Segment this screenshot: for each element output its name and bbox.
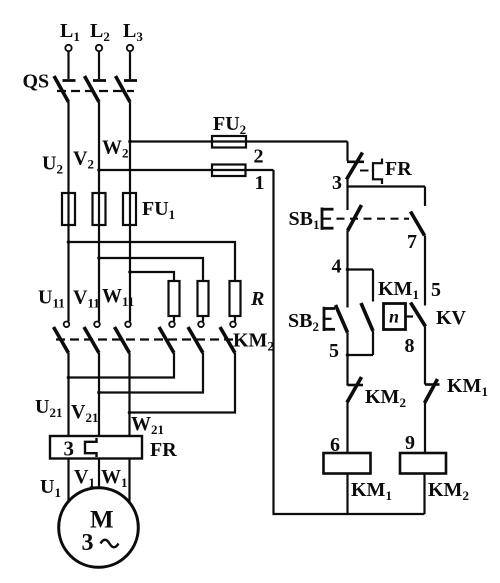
fuse FU1 pole 1 [62,193,75,225]
label n [389,307,399,327]
svg-text:QS: QS [23,71,50,93]
svg-text:3: 3 [82,530,94,556]
label FR (contact) [385,158,412,180]
KM2 break contact (left rung) [347,355,363,453]
node label 4 [332,256,342,278]
speed relay KV n-box [384,304,414,330]
SB2 make contact [336,270,348,356]
wire V phase QS to FU1 [98,102,100,193]
label KM1 (coil) [351,479,392,503]
svg-text:V11: V11 [73,287,100,311]
coil KM2 [400,453,446,514]
svg-text:n: n [389,307,399,327]
terminal L3 [127,45,133,51]
fuse FU1 pole 2 [93,193,106,225]
switch QS pole 2 [85,76,107,102]
label U2 [42,153,63,177]
node label 7 [407,231,417,253]
svg-text:KM2: KM2 [428,479,469,503]
svg-text:SB2: SB2 [288,310,319,334]
wire L2 to QS [98,51,100,79]
FR heater count 3 [64,437,75,461]
svg-text:L3: L3 [123,20,143,44]
resistor R1 [169,281,180,322]
control wire 2 corner into FR contact [346,142,348,161]
svg-text:3: 3 [64,437,75,461]
button SB2 head [323,307,335,331]
wire V21 vertical [98,353,100,436]
label U1 [40,476,61,500]
label W11 [102,285,134,309]
label L1 [60,20,80,44]
label KM1 (break contact) [447,375,488,399]
wire 2 (control feed from W phase) [128,140,347,144]
wire W phase QS to FU1 [129,102,131,193]
label V1 [74,466,95,490]
fuse FU2 upper [212,136,246,148]
svg-text:KM2: KM2 [233,330,274,354]
svg-text:KM2: KM2 [365,386,406,410]
label U11 [38,287,65,311]
wire U21 vertical [67,353,69,436]
label R [250,288,264,310]
svg-text:W1: W1 [101,466,128,490]
wire 1 (control feed from V phase) [97,168,273,172]
svg-text:8: 8 [405,335,415,357]
node label 6 [330,434,340,456]
wire L1 to QS [67,51,69,79]
QS mechanical link (dashed) [57,90,134,92]
thermal relay FR heater box [50,436,142,459]
node label 1 [255,172,265,194]
wire V1 to motor [98,459,100,489]
switch QS pole 1 [54,76,76,102]
KM1 self-holding contact [361,270,373,356]
label U21 [35,396,62,420]
svg-text:SB1: SB1 [289,208,320,232]
node label 9 [405,432,415,454]
wire U phase FU1 to contact [67,225,69,322]
svg-text:KM1: KM1 [351,479,392,503]
SB1 break contact [348,187,362,270]
svg-text:L2: L2 [90,20,110,44]
wire L3 to QS [129,51,131,79]
contactor KM2 main contact 6 [220,322,236,354]
label QS [23,71,50,93]
node 3 wire to right rung [348,185,426,187]
svg-text:V2: V2 [73,148,94,172]
control left rail [274,170,425,514]
label W21 [131,413,164,437]
SB1 linked make contact (7) [411,187,426,306]
cross wire contact6 to W21 [128,353,235,414]
svg-text:V21: V21 [71,401,98,425]
fuse FU1 pole 3 [123,193,136,225]
svg-text:V1: V1 [74,466,95,490]
label FR (heater) [150,439,177,461]
svg-text:KM1: KM1 [447,375,488,399]
label L2 [90,20,110,44]
node 4 junction [346,268,373,272]
wire W21 vertical [128,353,130,436]
svg-text:5: 5 [431,279,441,301]
svg-text:5: 5 [329,340,339,362]
svg-text:U11: U11 [38,287,65,311]
motor label M 3~ [82,507,114,557]
wire U1 to motor [67,459,69,502]
svg-text:KM1: KM1 [378,278,419,302]
svg-text:7: 7 [407,231,417,253]
label V11 [73,287,100,311]
node label 3 [332,172,342,194]
label KM2 (main contacts) [233,330,274,354]
node 5 rejoin wire [346,353,373,357]
terminal L2 [96,45,102,51]
motor tilde [101,540,119,548]
contactor KM2 main contact 3 [115,322,131,354]
svg-text:FU1: FU1 [142,198,175,222]
svg-text:1: 1 [255,172,265,194]
button SB1 head [321,208,334,230]
svg-text:W21: W21 [131,413,164,437]
label FU2 [213,113,246,137]
label KV [436,307,467,329]
label W1 [101,466,128,490]
svg-text:3: 3 [332,172,342,194]
cross wire contact4 to U21 [67,353,174,379]
svg-text:R: R [250,288,264,310]
cross wire contact5 to V21 [97,353,203,394]
label V2 [73,148,94,172]
contactor KM2 main contact 5 [188,322,204,354]
wire W1 to motor [128,459,130,503]
SB1 mechanical link (dashed) [323,218,409,220]
node label 5 (left) [329,340,339,362]
node label 5 (right) [431,279,441,301]
FR thermal element symbol (control) [360,159,382,185]
svg-text:U21: U21 [35,396,62,420]
svg-text:FR: FR [385,158,412,180]
branch wire U to resistor R3 [67,240,235,281]
branch wire V to resistor R2 [97,256,203,281]
label KM1 (self-holding) [378,278,419,302]
fuse FU2 lower [212,165,246,177]
label W2 [102,137,129,161]
svg-text:U2: U2 [42,153,63,177]
label FU1 [142,198,175,222]
svg-text:9: 9 [405,432,415,454]
contactor KM2 main contact 2 [84,322,100,354]
label SB1 [289,208,320,232]
label V21 [71,401,98,425]
svg-text:KV: KV [436,307,467,329]
FR heater element symbol [85,438,97,457]
KV contact [411,303,426,385]
switch QS pole 3 [116,76,138,102]
svg-text:U1: U1 [40,476,61,500]
svg-text:4: 4 [332,256,342,278]
wire V phase FU1 to contact [98,225,100,322]
KM1 break contact (right rung) [425,379,440,453]
motor M [59,488,139,568]
label SB2 [288,310,319,334]
KM2 main contacts mechanical link (dashed) [56,338,236,340]
FR break contact [347,153,365,187]
svg-text:M: M [90,507,114,534]
terminal L1 [65,45,71,51]
label KM2 (coil) [428,479,469,503]
coil KM1 [324,453,371,514]
resistor R2 [198,281,209,322]
label L3 [123,20,143,44]
contactor KM2 main contact 4 [159,322,175,354]
contactor KM2 main contact 1 [54,322,70,354]
branch wire W to resistor R1 [128,270,174,281]
wire W phase FU1 to contact [129,225,131,322]
svg-text:FR: FR [150,439,177,461]
svg-text:FU2: FU2 [213,113,246,137]
svg-text:L1: L1 [60,20,80,44]
node label 2 [254,146,264,168]
svg-text:W2: W2 [102,137,129,161]
svg-text:2: 2 [254,146,264,168]
wire U phase QS to FU1 [67,102,69,193]
label KM2 (break contact) [365,386,406,410]
resistor R3 [230,281,241,322]
node label 8 [405,335,415,357]
